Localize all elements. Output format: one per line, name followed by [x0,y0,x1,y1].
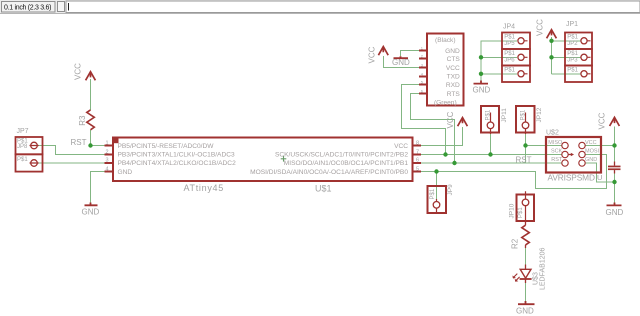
svg-text:GND: GND [516,306,534,315]
svg-text:RXD: RXD [446,82,460,89]
svg-text:PB5/PCINT5/-RESET/ADC0/DW: PB5/PCINT5/-RESET/ADC0/DW [118,143,215,150]
svg-text:P$1: P$1 [485,109,491,120]
svg-text:RST: RST [516,155,532,164]
svg-text:VCC: VCC [394,143,408,150]
svg-text:VCC: VCC [446,65,460,72]
svg-text:RTS: RTS [447,91,461,98]
svg-text:GND: GND [392,58,410,67]
svg-text:MOSI/DI/SDA/AIN0/OC0A/-OC1A/AR: MOSI/DI/SDA/AIN0/OC0A/-OC1A/AREF/PCINT0/… [250,169,408,176]
svg-text:5: 5 [416,166,419,172]
svg-text:P$1: P$1 [504,51,515,57]
svg-text:JP3: JP3 [567,57,578,63]
svg-text:VCC: VCC [74,63,83,80]
svg-text:SCK/USCK/SCL/ADC1/T0/INT0/PCIN: SCK/USCK/SCL/ADC1/T0/INT0/PCINT2/PB2 [275,152,408,159]
svg-text:GND: GND [585,157,597,163]
svg-text:JP2: JP2 [567,41,578,47]
svg-text:GND: GND [445,48,460,55]
svg-text:ATtiny45: ATtiny45 [184,183,224,193]
svg-text:8: 8 [416,140,419,146]
svg-text:4: 4 [106,166,109,172]
svg-text:7: 7 [416,149,419,155]
svg-text:JP11: JP11 [501,108,508,123]
svg-text:1: 1 [106,140,109,146]
svg-text:U$1: U$1 [315,184,332,194]
svg-text:P$1: P$1 [17,157,28,163]
svg-text:VCC: VCC [536,19,545,36]
svg-text:JP10: JP10 [509,203,516,218]
svg-text:VCC: VCC [585,140,597,146]
svg-text:JP6: JP6 [504,57,515,63]
svg-text:(Green): (Green) [434,100,457,107]
svg-text:U: U [597,173,602,182]
svg-text:JP5: JP5 [504,41,515,47]
svg-text:AVRISPSMD: AVRISPSMD [548,173,595,183]
svg-text:MISO: MISO [548,140,563,146]
svg-text:JP12: JP12 [536,107,543,122]
svg-text:GND: GND [118,169,133,176]
svg-text:MISO/DO/AIN1/OC0B/OC1A/PCINT1/: MISO/DO/AIN1/OC0B/OC1A/PCINT1/PB1 [284,160,409,167]
svg-text:VCC: VCC [598,112,607,129]
svg-text:P$1: P$1 [520,109,526,120]
svg-text:6: 6 [416,157,419,163]
svg-text:R2: R2 [510,238,519,249]
svg-text:P$1: P$1 [518,207,524,218]
svg-text:CTS: CTS [447,56,461,63]
svg-text:P$1: P$1 [504,34,515,40]
svg-text:RST: RST [71,138,87,147]
svg-text:GND: GND [82,208,100,217]
svg-text:JP7: JP7 [17,128,29,135]
svg-text:P$1: P$1 [567,67,578,73]
svg-text:0.1 inch (2.3 3.6): 0.1 inch (2.3 3.6) [4,4,51,11]
svg-text:JP8: JP8 [17,144,28,150]
svg-text:VCC: VCC [368,46,377,63]
svg-text:PB3/PCINT3/XTAL1/CLKI/-OC1B/AD: PB3/PCINT3/XTAL1/CLKI/-OC1B/ADC3 [118,152,235,159]
svg-text:(Black): (Black) [435,37,456,44]
svg-text:GND: GND [606,208,624,217]
svg-text:PB4/PCINT4/XTAL2/CLKO/OC1B/ADC: PB4/PCINT4/XTAL2/CLKO/OC1B/ADC2 [118,160,237,167]
svg-text:VCC: VCC [446,111,455,128]
svg-text:U$2: U$2 [546,130,559,137]
svg-text:GND: GND [473,85,491,94]
svg-text:SCK: SCK [551,149,563,155]
svg-text:LEDFAB1206: LEDFAB1206 [539,247,546,290]
svg-text:JP9: JP9 [447,184,454,196]
svg-text:2: 2 [106,149,109,155]
svg-text:RST: RST [551,157,563,163]
svg-text:MOSI: MOSI [585,149,600,155]
svg-text:JP4: JP4 [503,24,515,31]
svg-text:P$1: P$1 [567,34,578,40]
svg-text:P$1: P$1 [567,51,578,57]
svg-text:JP1: JP1 [566,21,578,28]
svg-text:R3: R3 [78,115,87,126]
svg-text:3: 3 [106,157,109,163]
svg-text:P$1: P$1 [430,188,436,199]
svg-text:TXD: TXD [447,74,460,81]
svg-text:P$1: P$1 [504,67,515,73]
